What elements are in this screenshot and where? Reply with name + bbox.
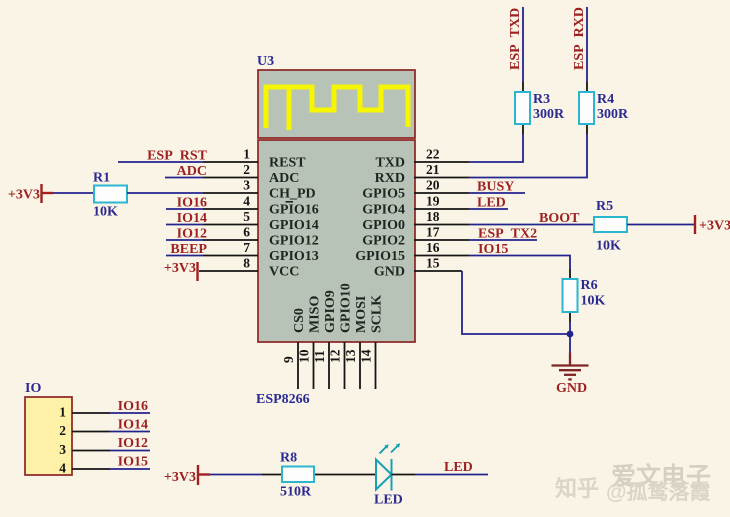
resistor R6 bbox=[563, 279, 578, 312]
wire net LED (pin19) bbox=[469, 208, 508, 210]
resistor R8 bbox=[282, 467, 314, 483]
svg-text:5: 5 bbox=[243, 209, 250, 224]
svg-text:IO: IO bbox=[25, 381, 41, 396]
svg-text:21: 21 bbox=[426, 162, 440, 177]
wire net ESP_RST (pin1) bbox=[118, 161, 203, 163]
svg-text:LED: LED bbox=[444, 460, 473, 475]
svg-text:GPIO9: GPIO9 bbox=[323, 290, 338, 333]
resistor R8 leads bbox=[262, 474, 376, 476]
power +3V3 port (right of R5) bbox=[695, 215, 730, 234]
svg-text:R6: R6 bbox=[581, 278, 598, 293]
svg-text:ADC: ADC bbox=[177, 164, 207, 179]
svg-text:BEEP: BEEP bbox=[170, 242, 207, 257]
antenna meander symbol bbox=[266, 87, 408, 128]
wire pin15 GND run bbox=[462, 271, 570, 334]
svg-text:10K: 10K bbox=[581, 294, 606, 309]
svg-text:VCC: VCC bbox=[269, 265, 299, 280]
svg-text:R1: R1 bbox=[93, 171, 110, 186]
wire net IO15 (pin16 to R6) bbox=[469, 256, 570, 270]
wire +3V3 to R8 bbox=[210, 474, 262, 476]
svg-text:15: 15 bbox=[426, 256, 440, 271]
svg-text:IO16: IO16 bbox=[177, 196, 207, 211]
power +3V3 port (left, feeds R1) bbox=[8, 184, 53, 203]
svg-text:GND: GND bbox=[374, 265, 405, 280]
svg-text:1: 1 bbox=[59, 405, 66, 420]
wire net BEEP bbox=[166, 255, 203, 257]
svg-text:TXD: TXD bbox=[375, 156, 405, 171]
svg-text:GND: GND bbox=[556, 381, 587, 396]
wire R6 to junction bbox=[569, 322, 571, 334]
pin 22 (TXD) bbox=[375, 147, 469, 171]
svg-text:R5: R5 bbox=[596, 199, 613, 214]
pin 19 (GPIO4) bbox=[362, 194, 469, 218]
svg-text:ADC: ADC bbox=[269, 171, 299, 186]
svg-text:LED: LED bbox=[477, 196, 506, 211]
wire R1 to pin3 CH_PD bbox=[127, 192, 203, 194]
svg-text:知乎: 知乎 bbox=[555, 476, 599, 501]
ground symbol GND bbox=[552, 334, 589, 396]
resistor R3 leads bbox=[522, 82, 524, 134]
svg-text:20: 20 bbox=[426, 178, 440, 193]
svg-text:REST: REST bbox=[269, 156, 306, 171]
resistor R3 bbox=[515, 92, 530, 124]
svg-text:GPIO4: GPIO4 bbox=[362, 203, 405, 218]
svg-text:CS0: CS0 bbox=[292, 308, 307, 333]
junction dot bbox=[567, 331, 574, 338]
wire R5 to +3V3 bbox=[627, 224, 695, 226]
svg-text:+3V3: +3V3 bbox=[164, 470, 196, 485]
resistor R6 leads bbox=[569, 269, 571, 322]
wire net IO16 bbox=[166, 208, 203, 210]
power +3V3 port (pin 8 VCC) bbox=[164, 261, 198, 281]
pin 14 (SCLK) bbox=[359, 295, 385, 389]
svg-text:10K: 10K bbox=[596, 239, 621, 254]
svg-text:ESP TXD: ESP TXD bbox=[508, 8, 523, 70]
svg-text:ESP RXD: ESP RXD bbox=[572, 7, 587, 70]
pin 17 (GPIO2) bbox=[362, 225, 469, 249]
svg-text:IO15: IO15 bbox=[118, 455, 148, 470]
wire pin21 RXD to R4 bbox=[469, 134, 587, 178]
svg-text:1: 1 bbox=[243, 147, 250, 162]
svg-text:3: 3 bbox=[59, 442, 66, 457]
svg-text:SCLK: SCLK bbox=[370, 295, 385, 333]
svg-text:6: 6 bbox=[243, 225, 250, 240]
wire R4 to ESP_RXD bbox=[586, 7, 588, 82]
svg-text:ESP8266: ESP8266 bbox=[256, 392, 310, 407]
svg-text:IO14: IO14 bbox=[118, 418, 148, 433]
svg-text:12: 12 bbox=[328, 349, 343, 363]
resistor R4 bbox=[579, 92, 594, 124]
svg-text:4: 4 bbox=[243, 194, 250, 209]
svg-text:510R: 510R bbox=[280, 485, 312, 500]
pin 5 (GPIO14) bbox=[203, 209, 319, 233]
svg-text:GPIO10: GPIO10 bbox=[339, 283, 354, 333]
svg-text:19: 19 bbox=[426, 194, 440, 209]
svg-text:CH_PD: CH_PD bbox=[269, 187, 316, 202]
svg-text:GPIO12: GPIO12 bbox=[269, 234, 319, 249]
svg-text:GPIO15: GPIO15 bbox=[355, 249, 405, 264]
svg-text:22: 22 bbox=[426, 147, 440, 162]
pin 15 (GND) bbox=[374, 256, 462, 280]
svg-text:18: 18 bbox=[426, 209, 440, 224]
svg-text:8: 8 bbox=[243, 256, 250, 271]
resistor R1 bbox=[94, 186, 127, 203]
pin 3 (CH_PD) bbox=[203, 178, 316, 202]
svg-text:17: 17 bbox=[426, 225, 440, 240]
power +3V3 port (LED row) bbox=[164, 465, 210, 485]
wire R3 to ESP_TXD bbox=[522, 7, 524, 82]
wire pin22 TXD to R3 bbox=[469, 134, 523, 162]
svg-text:2: 2 bbox=[243, 162, 250, 177]
pin 13 (MOSI) bbox=[343, 296, 369, 389]
svg-text:ESP RST: ESP RST bbox=[147, 149, 208, 164]
wire net IO14 bbox=[166, 224, 203, 226]
connector IO (header) bbox=[25, 397, 72, 475]
svg-text:300R: 300R bbox=[533, 107, 565, 122]
svg-text:ESP TX2: ESP TX2 bbox=[478, 227, 537, 242]
wire net IO14 (connector) bbox=[110, 431, 150, 433]
svg-text:LED: LED bbox=[374, 493, 403, 508]
svg-text:GPIO2: GPIO2 bbox=[362, 234, 405, 249]
LED D1 diode symbol bbox=[376, 443, 400, 490]
pin 12 (GPIO10) bbox=[328, 283, 354, 389]
wire net BOOT (pin18 to R5) bbox=[469, 224, 594, 226]
pin 7 (GPIO13) bbox=[203, 240, 319, 264]
svg-text:+3V3: +3V3 bbox=[8, 188, 40, 203]
wire LED cathode to net label bbox=[392, 474, 416, 476]
svg-text:IO16: IO16 bbox=[118, 399, 148, 414]
svg-text:IO12: IO12 bbox=[177, 227, 207, 242]
svg-text:10: 10 bbox=[297, 349, 312, 363]
op-amp/IC U3 antenna section box bbox=[258, 70, 415, 138]
svg-text:GPIO13: GPIO13 bbox=[269, 249, 319, 264]
wire net IO12 bbox=[166, 239, 203, 241]
svg-text:R4: R4 bbox=[597, 92, 614, 107]
svg-text:IO12: IO12 bbox=[118, 436, 148, 451]
svg-text:GPIO0: GPIO0 bbox=[362, 218, 405, 233]
pin 8 (VCC) bbox=[199, 256, 299, 280]
wire net IO15 (connector) bbox=[110, 468, 150, 470]
connector pin 3 bbox=[59, 442, 110, 457]
svg-text:GPIO16: GPIO16 bbox=[269, 203, 319, 218]
pin 4 (GPIO16) bbox=[203, 194, 319, 218]
svg-text:IO15: IO15 bbox=[478, 242, 508, 257]
svg-text:BUSY: BUSY bbox=[477, 180, 514, 195]
svg-text:R8: R8 bbox=[280, 451, 297, 466]
svg-text:11: 11 bbox=[312, 350, 327, 363]
svg-text:IO14: IO14 bbox=[177, 211, 207, 226]
connector pin 1 bbox=[59, 405, 110, 420]
svg-text:4: 4 bbox=[59, 461, 66, 476]
svg-text:GPIO5: GPIO5 bbox=[362, 187, 405, 202]
svg-text:13: 13 bbox=[343, 349, 358, 363]
svg-text:16: 16 bbox=[426, 240, 440, 255]
svg-text:+3V3: +3V3 bbox=[699, 219, 730, 234]
svg-text:+3V3: +3V3 bbox=[164, 261, 196, 276]
svg-text:14: 14 bbox=[359, 349, 374, 363]
svg-text:10K: 10K bbox=[93, 205, 118, 220]
svg-text:MOSI: MOSI bbox=[354, 296, 369, 333]
pin 2 (ADC) bbox=[203, 162, 299, 186]
connector pin 2 bbox=[59, 423, 110, 438]
svg-text:@孤鹜落霞: @孤鹜落霞 bbox=[606, 480, 711, 504]
svg-text:3: 3 bbox=[243, 178, 250, 193]
pin 21 (RXD) bbox=[375, 162, 469, 186]
svg-text:U3: U3 bbox=[257, 54, 274, 69]
resistor R5 bbox=[594, 217, 627, 232]
svg-text:RXD: RXD bbox=[375, 171, 405, 186]
svg-text:BOOT: BOOT bbox=[539, 211, 580, 226]
connector pin 4 bbox=[59, 461, 110, 476]
pin 20 (GPIO5) bbox=[362, 178, 469, 202]
wire net ESP_TX2 (pin17) bbox=[469, 239, 537, 241]
svg-text:300R: 300R bbox=[597, 107, 629, 122]
svg-text:7: 7 bbox=[243, 240, 250, 255]
svg-text:GPIO14: GPIO14 bbox=[269, 218, 319, 233]
svg-text:9: 9 bbox=[281, 356, 296, 363]
pin 6 (GPIO12) bbox=[203, 225, 319, 249]
pin 1 (REST) bbox=[203, 147, 306, 171]
pin 18 (GPIO0) bbox=[362, 209, 469, 233]
pin 16 (GPIO15) bbox=[355, 240, 469, 264]
overline on GPIO16 I bbox=[286, 201, 294, 203]
wire net ADC (pin2) bbox=[165, 177, 203, 179]
wire net BUSY (pin20) bbox=[469, 192, 525, 194]
wire net IO16 (connector) bbox=[110, 412, 150, 414]
pin 9 (CS0) bbox=[281, 308, 307, 389]
IC U3 main body bbox=[258, 140, 415, 342]
pin 11 (GPIO9) bbox=[312, 290, 338, 389]
wire net IO12 (connector) bbox=[110, 450, 150, 452]
svg-text:2: 2 bbox=[59, 423, 66, 438]
pin 10 (MISO) bbox=[297, 296, 323, 389]
svg-text:MISO: MISO bbox=[308, 296, 323, 333]
wire +3V3 to R1 bbox=[53, 192, 94, 194]
resistor R4 leads bbox=[586, 82, 588, 134]
watermark text bbox=[555, 462, 711, 504]
svg-text:R3: R3 bbox=[533, 92, 550, 107]
